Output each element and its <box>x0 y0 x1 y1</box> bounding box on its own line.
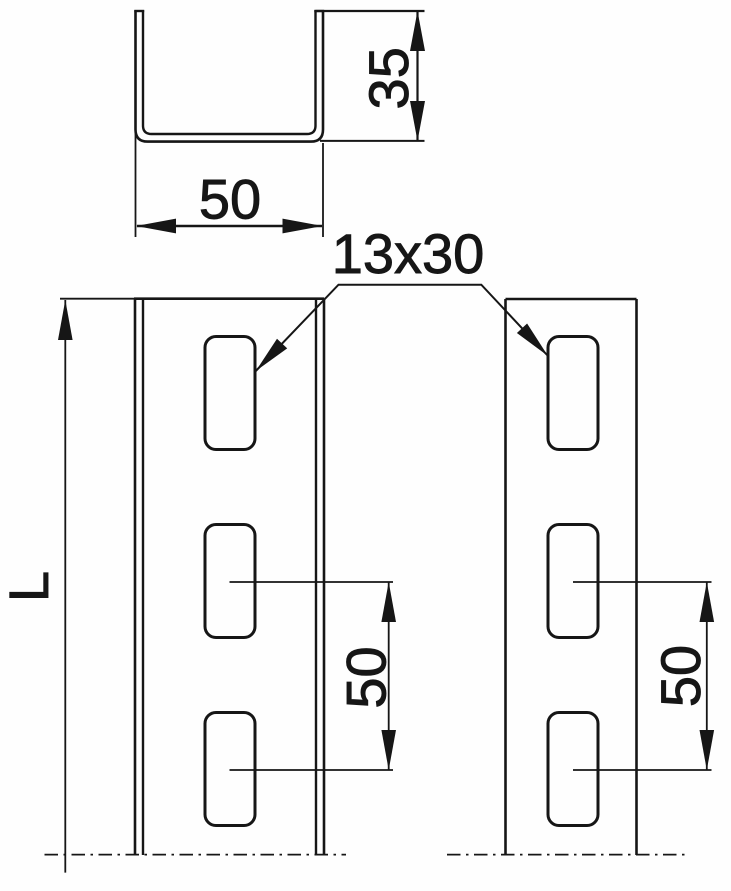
arrow leader right <box>517 324 548 357</box>
slot3 centre line (right view) <box>573 769 712 771</box>
left channel slot 3 <box>205 713 255 826</box>
arrow dim50right top <box>700 582 715 622</box>
U-profile left wall top cap <box>134 10 144 12</box>
centre line dash-dot (left view) <box>45 854 347 856</box>
left channel inner-right bend line <box>315 299 317 855</box>
right channel slot 1 <box>548 337 598 450</box>
svg-text:50: 50 <box>649 645 712 707</box>
right channel side view: top edge <box>506 298 637 301</box>
left channel slot 1 <box>205 337 255 450</box>
arrow dim50right bottom <box>700 730 715 770</box>
left channel front view: top edge <box>134 297 324 300</box>
svg-text:35: 35 <box>357 47 420 109</box>
slot2 centre line (right view) <box>573 581 712 583</box>
slot2 centre line (left view) <box>230 581 394 583</box>
dimension line 35 <box>416 11 418 141</box>
svg-text:50: 50 <box>199 168 261 231</box>
arrow dim50top left <box>136 219 176 234</box>
left channel outer-right edge <box>323 299 326 855</box>
arrow leader left <box>256 339 287 371</box>
right channel slot 3 <box>548 713 598 826</box>
centre line dash-dot (right view) <box>447 854 689 856</box>
arrow dim50left top <box>381 582 396 622</box>
extension line right for dim 50 (top) <box>322 143 324 237</box>
leader line 13x30 <box>256 285 548 371</box>
U-profile right wall top cap <box>314 10 324 12</box>
arrow dim50top right <box>283 219 323 234</box>
extension line for dim L (top) <box>60 298 134 300</box>
arrow dim50left bottom <box>381 730 396 770</box>
svg-text:L: L <box>0 571 60 602</box>
extension line left for dim 50 (top) <box>135 130 137 237</box>
svg-text:50: 50 <box>335 646 398 708</box>
extension line bottom for dim 35 <box>320 140 425 142</box>
extension line top for dim 35 <box>316 10 425 12</box>
dimension line 50 (top) <box>137 225 322 227</box>
left channel outer-left edge <box>134 299 137 855</box>
right channel left edge <box>504 299 507 855</box>
U-profile cross-section outer contour <box>136 10 324 141</box>
arrow dim35 bottom <box>410 101 425 141</box>
U-profile cross-section inner contour <box>143 10 316 134</box>
left channel inner-left bend line <box>142 299 144 855</box>
right channel slot 2 <box>548 525 598 638</box>
dimension line L <box>64 300 66 873</box>
left channel slot 2 <box>205 525 255 638</box>
arrow dim35 top <box>410 11 425 51</box>
dimension line 50 (left view) <box>388 582 390 770</box>
slot3 centre line (left view) <box>230 769 394 771</box>
svg-text:13x30: 13x30 <box>332 222 485 285</box>
right channel right edge <box>635 299 638 855</box>
dimension line 50 (right view) <box>706 582 708 770</box>
arrow dimL top <box>58 300 73 340</box>
